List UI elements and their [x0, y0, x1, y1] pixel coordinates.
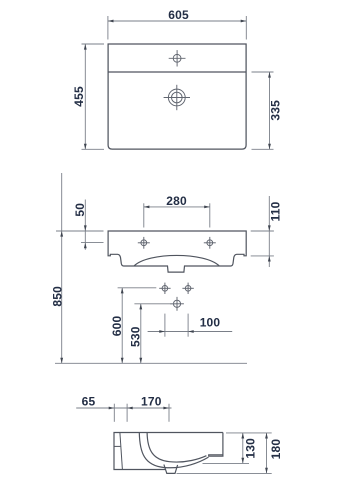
wall drain crosshair: [170, 297, 184, 311]
dimension 130 arrows: [241, 433, 244, 464]
svg-text:130: 130: [244, 438, 258, 459]
svg-text:280: 280: [166, 194, 187, 208]
dimension 850 arrows: [60, 231, 63, 363]
dimension 605 arrows: [108, 20, 246, 23]
dimension 180 arrows: [265, 433, 268, 474]
dimension 530 extension line: [134, 303, 175, 305]
top view basin outline: [108, 44, 246, 149]
svg-text:600: 600: [110, 315, 124, 336]
svg-text:335: 335: [269, 100, 283, 121]
dimension 65 arrow left: [109, 407, 115, 410]
dimension 280 arrows: [144, 206, 210, 209]
dimension 455 arrows: [84, 44, 87, 149]
dimension 600 extension line: [118, 287, 157, 289]
dimension 65-170 extension lines: [113, 404, 115, 422]
svg-text:180: 180: [269, 439, 283, 460]
svg-text:530: 530: [128, 326, 142, 347]
dimension 50 extension lines: [56, 230, 104, 232]
wall hole crosshair left: [159, 283, 170, 294]
dimension 335 extension lines: [252, 71, 274, 73]
svg-text:50: 50: [73, 203, 87, 217]
dimension 530 arrows: [139, 304, 142, 364]
dimension 50 arrows: [84, 225, 87, 248]
dimension 110 arrows: [268, 225, 271, 261]
svg-text:65: 65: [82, 394, 96, 408]
dimension 65-170 line: [76, 407, 171, 409]
svg-text:110: 110: [269, 201, 283, 221]
faucet hole crosshair: [169, 50, 186, 66]
floor line: [55, 362, 247, 364]
dimension 280 extension lines: [143, 203, 145, 227]
dimension 455 extension lines: [82, 43, 105, 45]
side view rim strip: [209, 433, 223, 457]
drain crosshair: [164, 85, 190, 110]
side view outer bowl curve: [139, 433, 208, 468]
svg-text:850: 850: [51, 286, 65, 307]
side view back slant line: [120, 433, 123, 470]
dimension 180 line: [266, 433, 268, 474]
dimension 130 bottom extension line: [203, 462, 250, 464]
svg-text:455: 455: [72, 86, 86, 107]
svg-text:100: 100: [200, 315, 221, 329]
dimension 130-180 top extension line: [226, 432, 272, 434]
dimension 280 line: [144, 206, 210, 208]
dimension 600 arrows: [121, 288, 124, 364]
side view drain cup: [164, 465, 178, 474]
dimension 170 arrow right: [163, 407, 169, 410]
dimension 100 extension lines: [164, 314, 166, 337]
dimension 180 bottom extension line (drain bottom): [177, 472, 272, 474]
svg-text:605: 605: [168, 8, 189, 22]
front view left mounting hole crosshair: [138, 237, 150, 249]
dimension 335 arrows: [268, 72, 271, 149]
front view bowl arc: [134, 255, 219, 266]
dimension 605 extension lines: [107, 16, 109, 40]
dimension 110 line: [268, 196, 270, 267]
dimension 110 extension lines: [251, 230, 274, 232]
dimension 600 line: [121, 288, 123, 364]
side view outline: [114, 433, 223, 470]
top view ledge line: [108, 71, 246, 73]
front view right mounting hole crosshair: [204, 237, 216, 249]
dimension 100 arrows: [159, 330, 193, 333]
dimension 850 line: [61, 173, 63, 363]
wall hole crosshair right: [182, 283, 193, 294]
dimension 130 line: [242, 433, 244, 464]
side view back tick: [114, 445, 120, 447]
side view inner bowl curve: [147, 433, 206, 463]
dimension 50 line: [84, 200, 86, 250]
dimension 605 line: [108, 20, 246, 22]
front view basin outline: [108, 231, 246, 272]
dimension 335 line: [269, 72, 271, 149]
dimension 530 line: [140, 304, 142, 364]
dimension 455 line: [84, 44, 86, 149]
dimension 100 line: [148, 331, 233, 333]
svg-text:170: 170: [141, 394, 162, 408]
dimension 65-170 arrow middle: [127, 407, 133, 410]
